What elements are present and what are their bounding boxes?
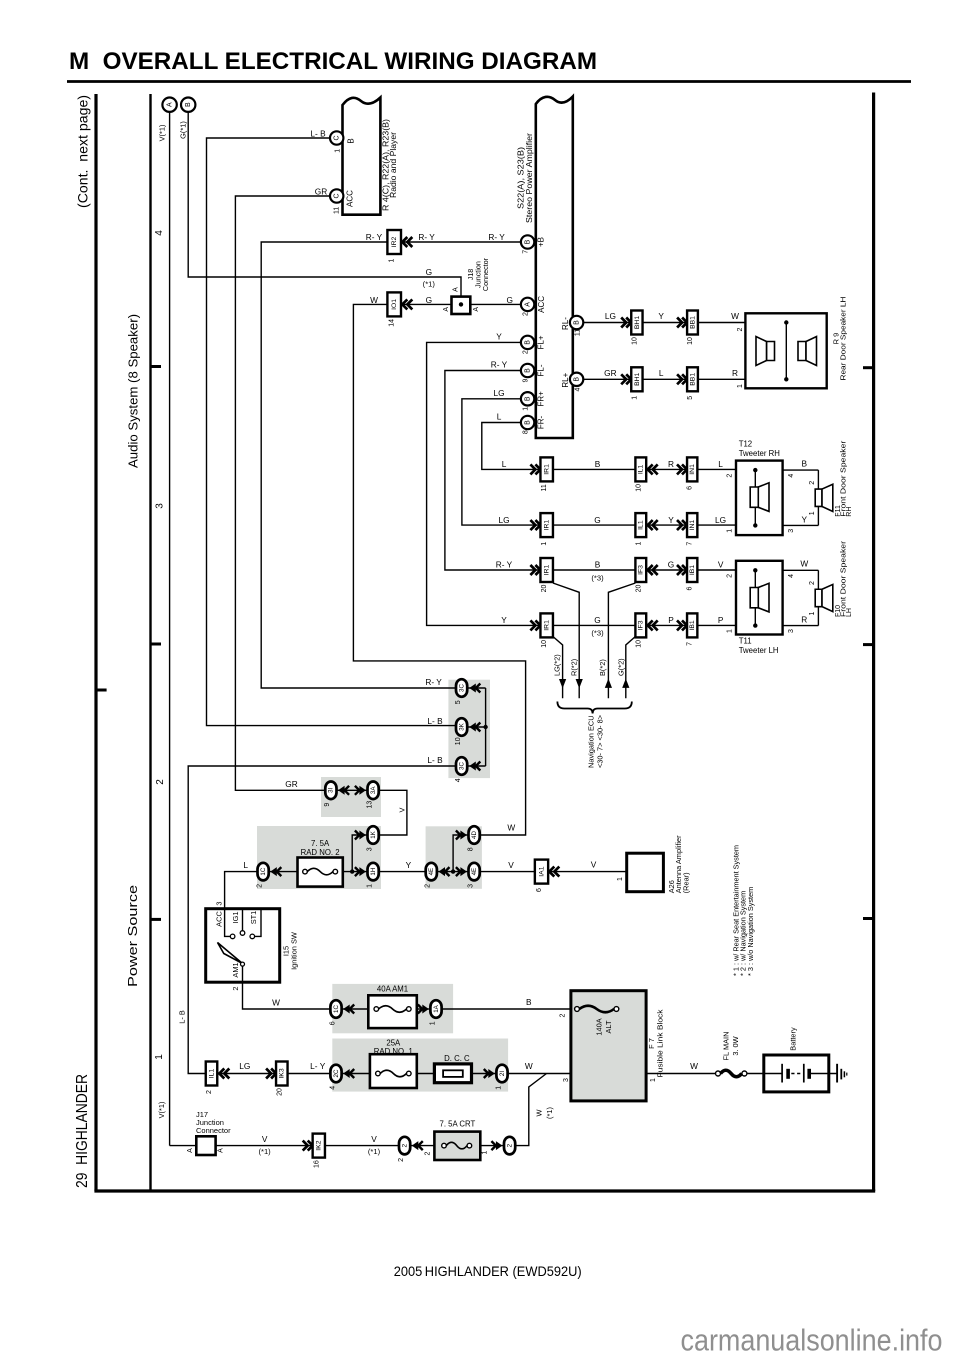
svg-text:L: L [243,860,248,870]
svg-text:L: L [659,368,664,378]
svg-text:2: 2 [522,312,529,316]
svg-text:M OVERALL ELECTRICAL WIRING D: M OVERALL ELECTRICAL WIRING DIAGRAM [69,48,597,75]
svg-text:L- B: L- B [177,1010,186,1024]
svg-text:4: 4 [329,1086,336,1090]
svg-text:2I: 2I [499,1071,506,1076]
svg-text:RAD NO. 2: RAD NO. 2 [301,848,340,857]
svg-text:V: V [397,807,406,812]
svg-text:W: W [370,295,378,305]
svg-text:T11: T11 [739,637,752,646]
svg-text:<30- 7> <30- 8>: <30- 7> <30- 8> [596,715,605,768]
svg-text:3I: 3I [328,787,335,792]
svg-text:1: 1 [809,611,816,615]
svg-text:10: 10 [541,640,548,648]
svg-text:3: 3 [366,847,373,851]
svg-text:IR1: IR1 [544,464,551,475]
svg-text:IK2: IK2 [316,1140,323,1150]
svg-text:C: C [334,193,341,198]
svg-text:B: B [802,459,808,469]
svg-text:(Rear): (Rear) [681,872,690,893]
svg-text:R- Y: R- Y [496,560,513,570]
svg-text:FR+: FR+ [537,391,546,407]
svg-text:V: V [508,860,514,870]
svg-text:RL-: RL- [561,317,570,330]
svg-text:W: W [800,559,808,569]
svg-text:W: W [272,998,280,1008]
svg-text:BB1: BB1 [689,316,696,329]
svg-text:40A AM1: 40A AM1 [377,985,408,994]
svg-text:B: B [524,239,531,244]
svg-text:C: C [334,135,341,140]
svg-text:6: 6 [329,1021,336,1025]
svg-text:L- B: L- B [310,129,326,139]
svg-text:R- Y: R- Y [491,360,508,370]
svg-text:Power Source: Power Source [125,885,140,987]
svg-text:Battery: Battery [789,1027,798,1051]
svg-text:20: 20 [541,585,548,593]
svg-text:IF3: IF3 [638,620,645,630]
svg-text:7. 5A: 7. 5A [311,839,330,848]
svg-text:3A: 3A [370,786,377,794]
svg-text:B: B [526,997,532,1007]
svg-text:IL1: IL1 [638,464,645,474]
svg-text:L- B: L- B [427,716,443,726]
svg-text:ALT: ALT [604,1020,613,1033]
svg-text:Y: Y [406,860,412,870]
svg-text:G: G [506,295,512,305]
svg-text:8: 8 [467,847,474,851]
svg-text:Tweeter RH: Tweeter RH [739,449,780,458]
svg-text:3. 0W: 3. 0W [731,1036,740,1055]
svg-text:IB1: IB1 [689,565,696,575]
svg-text:3: 3 [215,901,224,905]
svg-text:G: G [426,295,432,305]
svg-text:IB1: IB1 [689,620,696,630]
svg-text:IR1: IR1 [544,564,551,575]
svg-text:L- B: L- B [427,755,443,765]
svg-text:AM1: AM1 [231,962,240,977]
svg-text:L: L [497,412,502,422]
svg-text:ACC: ACC [537,296,546,313]
svg-text:L- Y: L- Y [310,1061,326,1071]
svg-text:B: B [524,368,531,373]
svg-text:10: 10 [635,640,642,648]
svg-text:R- Y: R- Y [425,677,442,687]
svg-text:1: 1 [482,1150,489,1154]
svg-text:G: G [594,615,600,625]
svg-text:1K: 1K [370,830,377,838]
svg-text:5: 5 [455,700,462,704]
svg-text:1: 1 [617,877,624,881]
svg-text:B: B [346,138,355,143]
svg-text:P: P [668,615,674,625]
svg-text:11: 11 [541,484,548,491]
svg-text:IR2: IR2 [391,236,398,247]
svg-text:W: W [525,1061,533,1071]
svg-text:2005 HIGHLANDER (EWD592U): 2005 HIGHLANDER (EWD592U) [394,1263,582,1279]
svg-text:T12: T12 [739,440,752,449]
svg-text:B: B [524,340,531,345]
svg-text:2: 2 [206,1090,213,1094]
svg-text:3: 3 [563,1078,570,1082]
svg-text:G(*2): G(*2) [617,658,626,676]
svg-text:10: 10 [631,337,638,345]
svg-text:140A: 140A [595,1018,604,1035]
svg-text:G: G [594,515,600,525]
svg-text:9: 9 [324,803,331,807]
svg-text:Y: Y [668,515,674,525]
svg-text:B: B [573,320,580,325]
svg-text:1: 1 [726,529,733,533]
svg-text:1: 1 [541,542,548,546]
svg-text:Y: Y [802,515,808,525]
svg-text:2: 2 [506,1143,513,1147]
svg-text:20: 20 [276,1088,283,1096]
svg-text:Navigation ECU: Navigation ECU [586,715,595,768]
svg-text:4: 4 [154,230,165,236]
svg-text:R: R [668,459,674,469]
svg-text:IO1: IO1 [391,299,398,310]
svg-text:3: 3 [155,503,166,509]
svg-text:6: 6 [536,888,543,892]
svg-text:4E: 4E [428,868,435,876]
svg-text:8: 8 [522,430,529,434]
svg-text:RL+: RL+ [561,372,570,387]
svg-text:GR: GR [315,187,327,197]
svg-text:1: 1 [522,407,529,411]
svg-text:IN1: IN1 [689,464,696,475]
svg-text:V(*1): V(*1) [157,1102,166,1119]
svg-text:4: 4 [788,574,795,578]
svg-text:2C: 2C [333,1069,340,1077]
svg-text:Tweeter LH: Tweeter LH [739,646,779,655]
svg-text:FL+: FL+ [537,335,546,349]
svg-text:4D: 4D [471,831,478,839]
svg-text:D. C. C: D. C. C [444,1054,470,1063]
svg-text:Stereo Power Amplifier: Stereo Power Amplifier [525,133,534,223]
svg-text:A: A [443,307,450,312]
svg-text:1C: 1C [333,1005,340,1013]
svg-text:4E: 4E [471,868,478,876]
svg-text:BH1: BH1 [634,372,641,385]
svg-text:(*3): (*3) [591,573,604,582]
svg-text:7: 7 [687,642,694,646]
svg-text:B: B [524,420,531,425]
svg-text:4: 4 [788,474,795,478]
svg-text:1: 1 [635,542,642,546]
svg-text:2: 2 [425,1151,432,1155]
svg-text:V: V [262,1134,268,1144]
svg-text:9: 9 [522,378,529,382]
svg-text:V: V [371,1134,377,1144]
svg-text:G: G [668,560,674,570]
svg-text:ST1: ST1 [249,911,258,925]
svg-text:(*1): (*1) [368,1147,381,1156]
svg-text:R(*2): R(*2) [569,659,578,676]
svg-text:IK3: IK3 [279,1068,286,1078]
svg-text:7: 7 [522,250,529,254]
svg-text:2: 2 [398,1158,405,1162]
svg-text:L: L [502,459,507,469]
svg-text:IA1: IA1 [538,866,545,876]
svg-text:R- Y: R- Y [488,232,505,242]
svg-text:1: 1 [495,1086,502,1090]
svg-text:7. 5A CRT: 7. 5A CRT [439,1120,475,1129]
svg-text:A: A [187,1148,194,1153]
svg-text:2: 2 [231,986,240,990]
svg-text:2: 2 [522,350,529,354]
svg-text:1: 1 [154,1054,165,1060]
svg-text:+B: +B [537,237,546,247]
svg-text:ACC: ACC [215,911,224,927]
svg-text:3: 3 [788,629,795,633]
svg-text:IF3: IF3 [638,565,645,575]
svg-text:A: A [473,307,480,312]
svg-text:1: 1 [389,258,396,262]
svg-text:2: 2 [560,1013,567,1017]
svg-text:BH1: BH1 [634,316,641,329]
svg-text:11: 11 [334,207,341,214]
svg-text:11: 11 [575,329,582,336]
svg-text:2: 2 [726,474,733,478]
svg-text:P: P [718,615,724,625]
svg-text:7: 7 [687,542,694,546]
svg-text:1: 1 [429,1021,436,1025]
svg-text:A: A [218,1148,225,1153]
svg-text:2: 2 [401,1143,408,1147]
svg-text:(Cont. next page): (Cont. next page) [76,95,91,208]
svg-text:13: 13 [366,801,373,809]
svg-text:2: 2 [425,884,432,888]
svg-text:B: B [595,560,601,570]
svg-text:Front Door Speaker: Front Door Speaker [841,540,848,617]
svg-text:3K: 3K [458,722,465,730]
svg-text:10: 10 [687,337,694,345]
svg-text:Connector: Connector [481,257,490,291]
svg-text:W: W [535,1109,544,1116]
svg-text:3: 3 [467,884,474,888]
svg-text:20: 20 [635,585,642,593]
svg-text:W: W [731,311,739,321]
svg-text:B(*2): B(*2) [598,659,607,676]
svg-text:GR: GR [285,779,297,789]
svg-text:FL MAIN: FL MAIN [722,1032,731,1061]
svg-text:16: 16 [313,1160,320,1168]
svg-text:(*3): (*3) [591,629,604,638]
svg-text:LG: LG [715,515,726,525]
svg-text:Fusible Link Block: Fusible Link Block [656,1009,665,1077]
svg-text:Audio System (8 Speaker): Audio System (8 Speaker) [127,314,141,468]
svg-text:1: 1 [366,884,373,888]
svg-text:1A: 1A [433,1004,440,1012]
svg-text:3C: 3C [458,684,465,692]
svg-text:1: 1 [726,629,733,633]
svg-text:14: 14 [389,319,396,327]
svg-text:Connector: Connector [196,1126,231,1135]
svg-text:10: 10 [635,484,642,492]
svg-text:6: 6 [687,586,694,590]
svg-text:A: A [166,102,173,107]
svg-text:G: G [426,267,432,277]
svg-text:LG(*2): LG(*2) [552,654,561,676]
svg-text:2: 2 [737,327,744,331]
svg-text:R: R [732,368,738,378]
svg-text:B: B [185,102,192,107]
svg-text:FR-: FR- [537,416,546,430]
svg-text:R- Y: R- Y [366,232,383,242]
svg-text:2: 2 [155,779,166,785]
svg-text:FL-: FL- [537,364,546,376]
svg-text:1H: 1H [370,868,377,876]
svg-text:LH: LH [846,608,853,617]
svg-text:(*1): (*1) [258,1147,271,1156]
svg-text:B: B [595,459,601,469]
svg-text:3: 3 [788,529,795,533]
svg-text:(*1): (*1) [545,1107,554,1119]
svg-text:L: L [718,459,723,469]
svg-text:4: 4 [574,388,581,392]
svg-text:GR: GR [604,368,616,378]
svg-text:V: V [718,560,724,570]
svg-text:2: 2 [809,481,816,485]
svg-text:6: 6 [687,486,694,490]
svg-text:1: 1 [737,384,744,388]
svg-text:10: 10 [455,737,462,745]
svg-text:W: W [690,1061,698,1071]
svg-text:LG: LG [493,388,504,398]
svg-text:LG: LG [605,311,616,321]
svg-text:carmanualsonline.info: carmanualsonline.info [681,1323,943,1358]
svg-text:1: 1 [631,396,638,400]
svg-text:B: B [524,396,531,401]
svg-text:B: B [573,377,580,382]
svg-text:Front Door Speaker: Front Door Speaker [841,440,848,517]
svg-text:RH: RH [846,507,853,517]
svg-text:* 3 : w/o Navigation System: * 3 : w/o Navigation System [746,887,755,976]
svg-text:1: 1 [335,149,342,153]
svg-text:W: W [507,823,515,833]
svg-text:V: V [591,860,597,870]
svg-text:IG1: IG1 [231,912,240,924]
svg-text:Ignition SW: Ignition SW [289,932,298,970]
svg-text:IN1: IN1 [689,520,696,531]
svg-text:3C: 3C [458,762,465,770]
svg-text:2: 2 [809,581,816,585]
svg-text:1: 1 [809,511,816,515]
svg-text:R- Y: R- Y [418,232,435,242]
svg-text:G(*1): G(*1) [179,121,188,139]
svg-text:IR1: IR1 [544,520,551,531]
svg-text:Radio and Player: Radio and Player [389,132,398,198]
svg-text:ACC: ACC [346,190,355,207]
svg-text:IL1: IL1 [208,1069,215,1079]
svg-text:V(*1): V(*1) [158,125,167,142]
svg-text:A: A [453,287,460,292]
svg-text:RAD NO. 1: RAD NO. 1 [374,1047,413,1056]
svg-text:IR1: IR1 [544,620,551,631]
svg-text:BB1: BB1 [689,373,696,386]
svg-text:IL1: IL1 [638,520,645,530]
svg-text:2: 2 [726,574,733,578]
svg-text:2: 2 [256,884,263,888]
svg-text:1: 1 [650,1078,657,1082]
svg-text:5: 5 [687,396,694,400]
svg-text:1C: 1C [260,867,267,875]
svg-text:Y: Y [501,615,507,625]
svg-text:Y: Y [658,311,664,321]
svg-text:4: 4 [455,778,462,782]
svg-text:Rear Door Speaker LH: Rear Door Speaker LH [838,297,847,381]
svg-text:LG: LG [239,1061,250,1071]
svg-text:Y: Y [496,332,502,342]
svg-text:LG: LG [498,515,509,525]
svg-text:R: R [801,615,807,625]
svg-text:A: A [524,302,531,307]
svg-text:(*1): (*1) [423,280,436,289]
svg-text:29 HIGHLANDER: 29 HIGHLANDER [74,1074,91,1188]
